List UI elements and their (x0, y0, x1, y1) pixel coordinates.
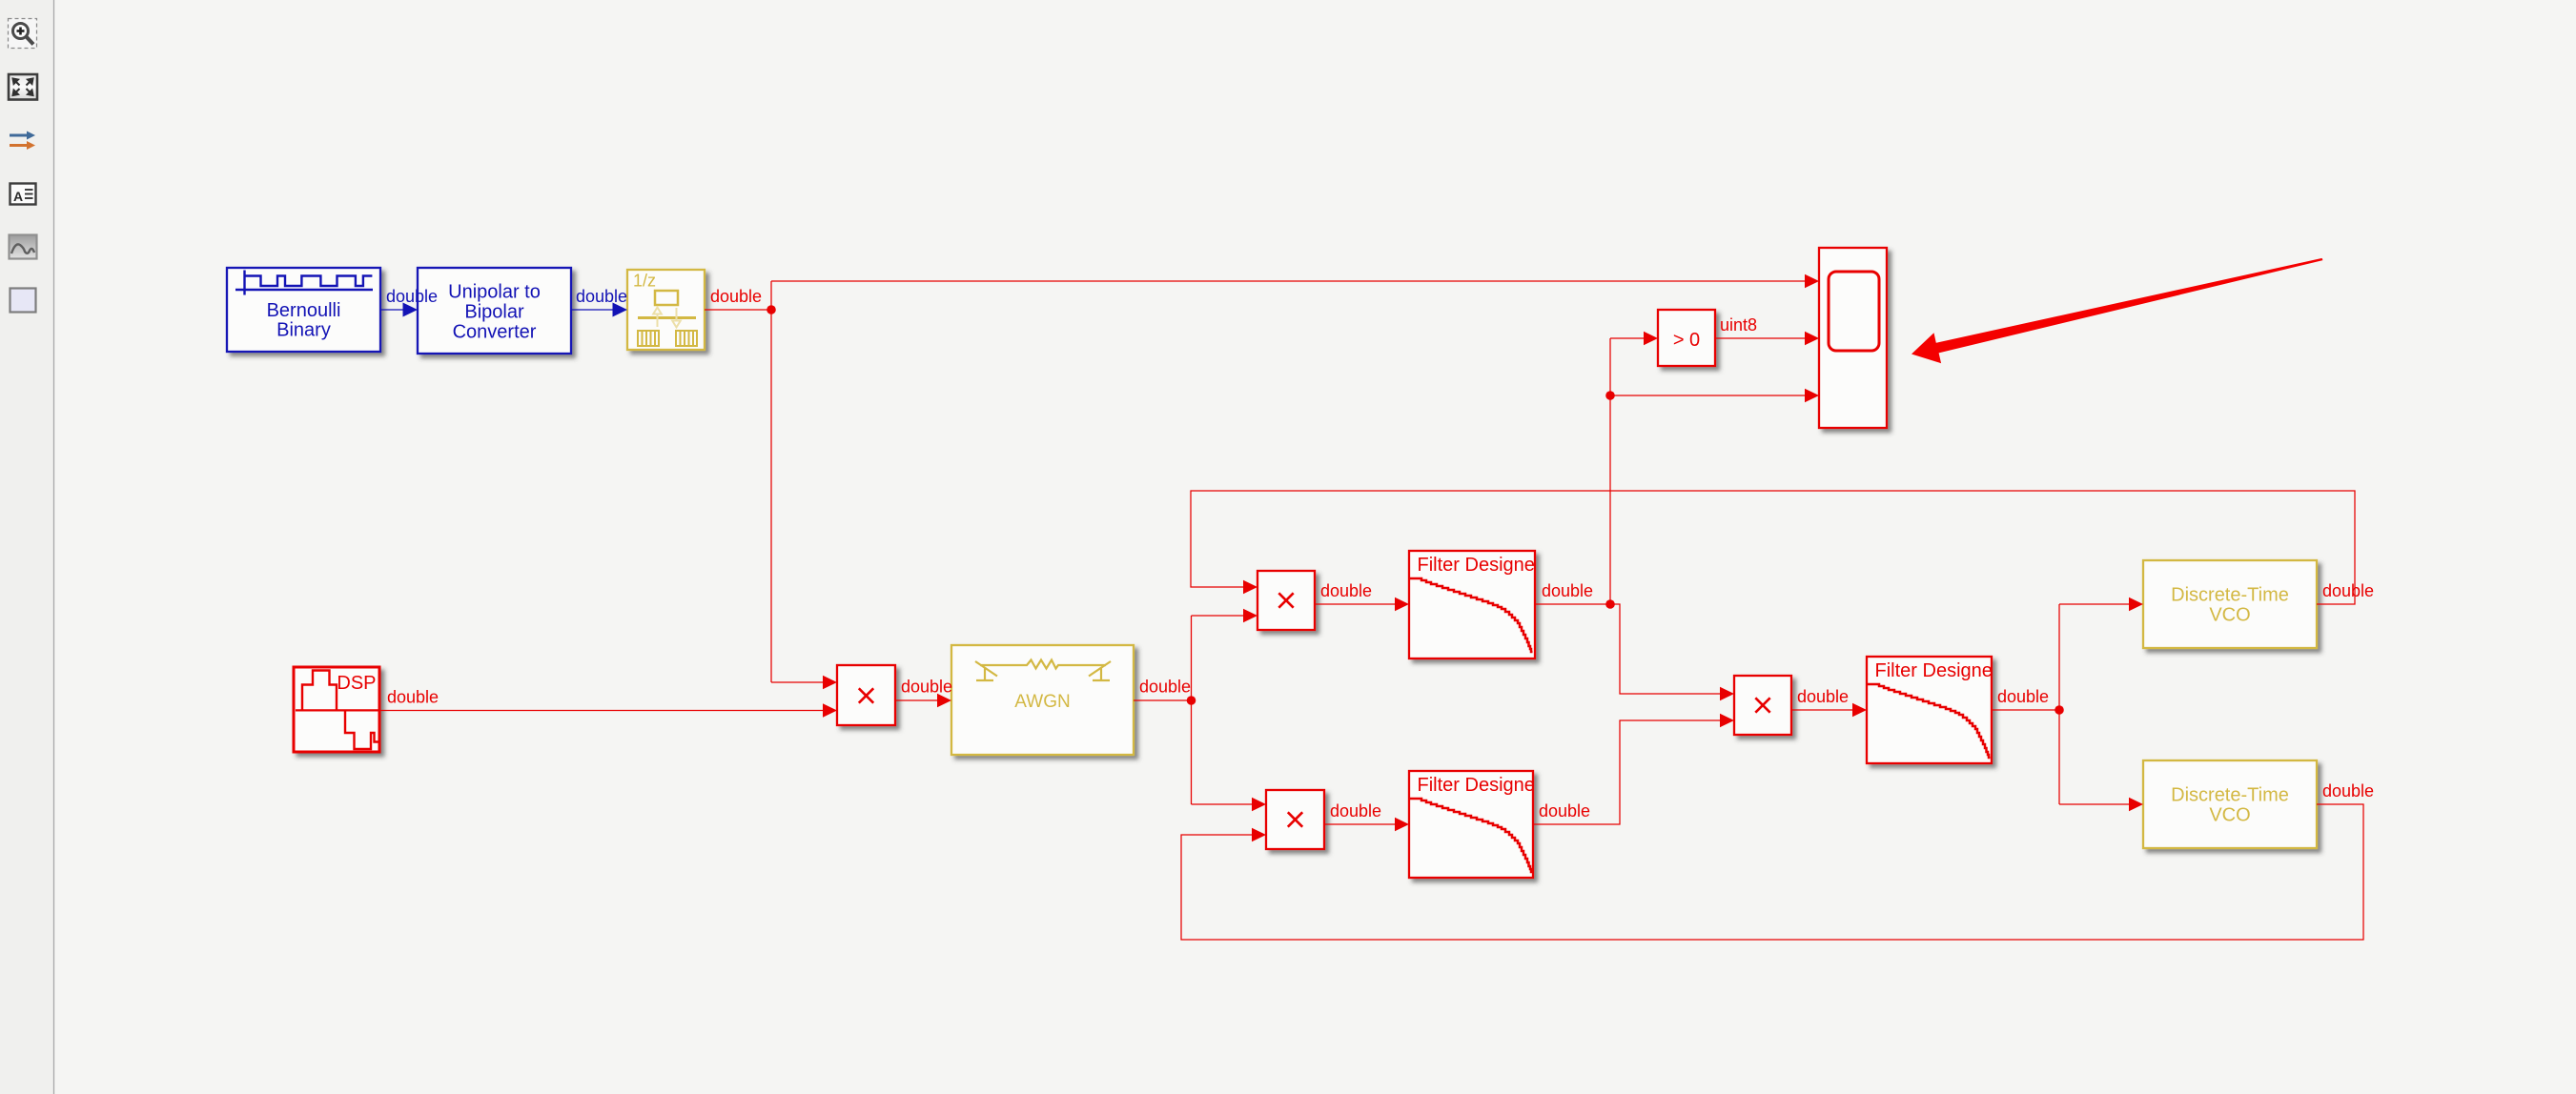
wire Filter Designer 2 to loop mixer input 2 (1532, 720, 1721, 824)
svg-text:A: A (13, 189, 23, 204)
svg-text:1/z: 1/z (633, 272, 656, 291)
svg-text:Converter: Converter (453, 322, 537, 343)
svg-text:> 0: > 0 (1673, 330, 1700, 351)
svg-text:Filter Designer: Filter Designer (1418, 775, 1542, 796)
Filter Designer 3 response curve (1867, 684, 1991, 758)
toolbar separator line (53, 0, 55, 1094)
block Compare To Zero (1658, 310, 1715, 366)
block Filter Designer 1 (upper lowpass) (1409, 551, 1535, 658)
svg-text:double: double (710, 287, 762, 306)
block Product loop (third mixer) (1734, 676, 1791, 735)
Rate Transition icon (633, 272, 697, 347)
svg-text:Discrete-Time: Discrete-Time (2171, 585, 2289, 606)
toolbar annotation icon (10, 184, 36, 205)
svg-text:double: double (387, 688, 439, 707)
svg-text:VCO: VCO (2209, 605, 2250, 626)
wire AWGN output trunk to both mixers (1134, 616, 1253, 804)
svg-text:Discrete-Time: Discrete-Time (2171, 785, 2289, 806)
svg-text:double: double (2322, 581, 2374, 600)
svg-text:double: double (576, 287, 627, 306)
arrowhead into VCO 2 (2129, 798, 2143, 811)
Product upper x symbol (1278, 593, 1293, 607)
block DSP sine wave source (294, 667, 379, 752)
block Product 1 (mixer) (837, 665, 895, 725)
wire Compare To Zero to Scope input 2 (1715, 332, 1819, 345)
block AWGN Channel (951, 645, 1134, 755)
junction dot at Scope input 3 branch (1605, 391, 1615, 400)
block Bernoulli Binary source (227, 268, 380, 352)
block Rate Transition 1/z (627, 270, 705, 350)
toolbar fit-to-view icon (9, 74, 37, 100)
junction dot at VCO branch (2055, 705, 2064, 715)
wire lower mixer to Filter Designer 2 (1324, 818, 1409, 831)
svg-text:double: double (2322, 781, 2374, 800)
Bernoulli Binary waveform icon (235, 271, 373, 295)
svg-text:Bernoulli: Bernoulli (267, 300, 341, 321)
block Product I-arm (upper mixer) (1257, 571, 1315, 630)
wire Filter Designer 3 output trunk to VCOs (1992, 604, 2130, 804)
svg-text:Bipolar: Bipolar (464, 302, 524, 323)
arrowhead into lower mixer input 2 (1252, 828, 1266, 841)
svg-text:AWGN: AWGN (1014, 692, 1070, 712)
svg-text:Filter Designer: Filter Designer (1418, 555, 1542, 576)
wire VCO1 feedback to upper mixer input 1 (1191, 491, 2355, 604)
block Filter Designer 2 (lower lowpass) (1409, 771, 1533, 878)
svg-text:uint8: uint8 (1720, 315, 1757, 334)
arrowhead into upper mixer input 1 (1243, 580, 1257, 594)
svg-text:double: double (1542, 581, 1593, 600)
svg-text:double: double (1330, 801, 1381, 820)
junction dot at AWGN branch (1187, 696, 1196, 705)
wire Rate Transition output trunk (705, 281, 1806, 682)
block Discrete-Time VCO 1 (2143, 560, 2317, 648)
svg-text:Binary: Binary (276, 320, 331, 341)
arrowhead into Compare To Zero (1644, 332, 1658, 345)
Product loop x symbol (1755, 698, 1769, 712)
annotation red tapered arrow (1912, 258, 2322, 363)
toolbar signal-arrows icon (10, 132, 35, 151)
svg-text:double: double (1997, 687, 2049, 706)
svg-text:VCO: VCO (2209, 805, 2250, 826)
arrowhead into lower mixer input 1 (1252, 798, 1266, 811)
svg-text:double: double (386, 287, 438, 306)
svg-text:double: double (901, 678, 952, 697)
junction dot at Rate Transition branch (767, 305, 776, 314)
Scope screen icon (1829, 272, 1879, 351)
toolbar image icon (10, 235, 37, 259)
wire Filter Designer 1 output trunk (1535, 338, 1806, 694)
svg-text:double: double (1320, 581, 1372, 600)
arrowhead into loop mixer input 2 (1720, 714, 1734, 727)
arrowhead into Scope input 3 (1805, 389, 1819, 402)
arrowhead into Scope input 1 (1805, 274, 1819, 288)
Product lower x symbol (1288, 812, 1302, 826)
svg-text:Unipolar to: Unipolar to (448, 282, 541, 303)
wire upper mixer to Filter Designer 1 (1315, 598, 1409, 611)
svg-text:double: double (1139, 678, 1191, 697)
arrowhead into loop mixer input 1 (1720, 687, 1734, 700)
block Scope (1819, 248, 1887, 428)
block Filter Designer 3 (loop filter) (1867, 657, 1992, 763)
arrowhead into Product 1 input 1 (823, 676, 837, 689)
arrowhead into upper mixer input 2 (1243, 609, 1257, 622)
block Discrete-Time VCO 2 (2143, 760, 2317, 848)
toolbar zoom tool icon (9, 19, 37, 49)
DSP icon (296, 671, 378, 750)
svg-text:double: double (1797, 687, 1849, 706)
wire Product 1 to AWGN (895, 694, 951, 707)
junction dot at Filter Designer 1 branch (1605, 599, 1615, 609)
wire VCO2 feedback to lower mixer input 2 (1181, 804, 2363, 940)
Product 1 x symbol (859, 688, 873, 702)
wire Unipolar to Rate Transition (blue) (571, 303, 627, 317)
svg-text:double: double (1539, 801, 1590, 820)
block Unipolar to Bipolar Converter (418, 268, 571, 354)
wire DSP to Product 1 (379, 703, 837, 717)
arrowhead into VCO 1 (2129, 598, 2143, 611)
Filter Designer 2 response curve (1409, 799, 1533, 872)
wire Bernoulli to Unipolar (blue) (380, 303, 418, 317)
svg-text:Filter Designer: Filter Designer (1875, 660, 1999, 681)
toolbar background strip (0, 0, 53, 1094)
Filter Designer 1 response curve (1409, 578, 1533, 652)
toolbar area icon (10, 289, 36, 313)
AWGN icon (975, 660, 1111, 681)
svg-text:DSP: DSP (337, 673, 376, 694)
block Product Q-arm (lower mixer) (1266, 790, 1324, 849)
wire loop mixer to Filter Designer 3 (1791, 703, 1867, 717)
